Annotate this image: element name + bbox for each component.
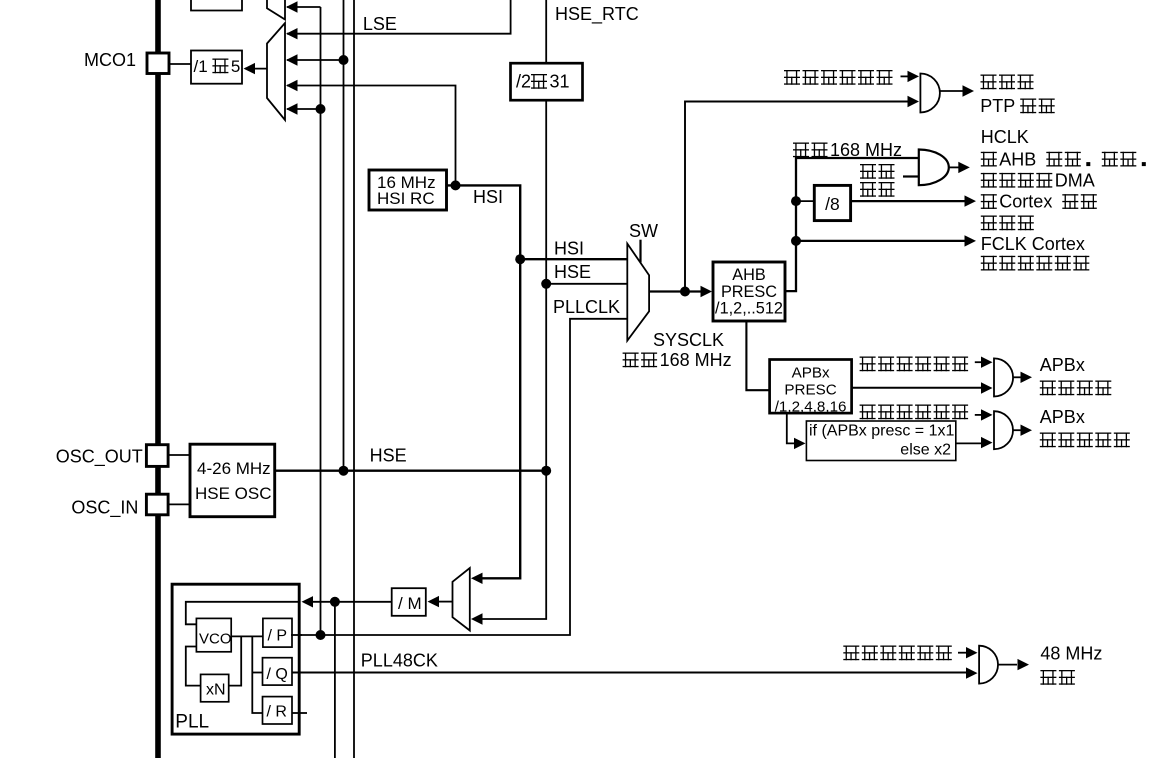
wire HSE_RTC vertical (x=545.5) with elbow into PLL source mux [482, 0, 546, 619]
mux MCO1 source select [267, 23, 285, 120]
divider box /M [392, 588, 426, 616]
svg-text:SW: SW [629, 221, 658, 241]
svg-text:HSE OSC: HSE OSC [195, 484, 272, 503]
arrowhead PLL48CK into 48MHz gate [966, 667, 978, 678]
arrowhead HSE into PLL source mux [471, 613, 483, 624]
svg-text:OSC_IN: OSC_IN [71, 498, 138, 519]
wire PLLCLK elbow: /P output right then up into SW mux [292, 319, 627, 635]
svg-text:48 MHz: 48 MHz [1040, 644, 1102, 664]
svg-text:AHB: AHB [732, 266, 765, 284]
wire clock-enable stub into HCLK gate [903, 175, 919, 177]
label to Cortex system [981, 194, 997, 209]
svg-text:PLL: PLL [175, 712, 209, 733]
pin MCO1 (port square on chip boundary) [147, 53, 169, 74]
wire APBx PRESC output to gate [852, 387, 981, 389]
junction dot PLLCLK/MCO1 [316, 104, 326, 114]
divider box /P [263, 618, 292, 647]
wire MCO2 mux input from PLLCLK net [287, 6, 321, 8]
label max 168 MHz (HCLK) [793, 143, 809, 158]
mux SW system clock select [627, 244, 649, 341]
svg-text:/1,2,4,8,16: /1,2,4,8,16 [775, 399, 847, 416]
wire MCO1 mux input 3 (HSI) elbow [287, 86, 456, 186]
junction dot HSE branch to SW mux [541, 279, 551, 289]
svg-text:/1,2,..512: /1,2,..512 [715, 300, 783, 318]
wire HCLK gate output [949, 166, 959, 168]
svg-text:OSC_OUT: OSC_OUT [56, 447, 143, 468]
divider box /8 [814, 185, 850, 220]
label memory and DMA [981, 173, 997, 188]
svg-text:168 MHz: 168 MHz [660, 350, 732, 370]
block VCO [196, 618, 231, 651]
svg-text:LSE: LSE [363, 14, 397, 34]
svg-text:/ R: / R [267, 704, 287, 721]
wire if-box output to timer gate [956, 442, 981, 444]
svg-text:4-26 MHz: 4-26 MHz [197, 459, 271, 478]
junction dot SYSCLK/ethernet branch [680, 287, 690, 297]
svg-text:HCLK: HCLK [981, 127, 1029, 147]
wire PLL input routing to VCO [186, 602, 299, 625]
label to AHB bus, core [981, 152, 997, 167]
wire LSE from top with elbow into MCO1 mux input 1 [287, 0, 511, 34]
svg-text:MCO1: MCO1 [84, 50, 136, 70]
svg-text:AHB: AHB [999, 149, 1036, 169]
divider box /1 to 5 (MCO1) [191, 51, 242, 84]
wire MCO1 mux input 4 (PLLCLK) [287, 108, 321, 110]
select line SW tick [639, 240, 641, 263]
svg-text:FCLK Cortex: FCLK Cortex [981, 234, 1085, 254]
svg-text:/ P: / P [268, 628, 288, 645]
wire SYSCLK from SW mux to AHB prescaler [649, 290, 704, 292]
svg-text:/8: /8 [825, 194, 840, 214]
wire 48MHz gate output [998, 664, 1017, 666]
wire MCO1 mux input 1 (LSE) arrowhead [286, 28, 298, 39]
junction dot HSE/MCO branch [339, 466, 349, 476]
svg-text:SYSCLK: SYSCLK [653, 330, 724, 350]
block xN [201, 674, 229, 701]
wire enable arrow into timer gate [975, 414, 983, 416]
wire /M output into PLL [311, 601, 392, 603]
junction dot PLLCLK at /P output [316, 630, 326, 640]
svg-text:PRESC: PRESC [784, 382, 836, 399]
oscillator box 4-26 MHz HSE OSC [190, 444, 275, 517]
junction dot HSE/RTC net [541, 466, 551, 476]
arrowhead HSI into PLL source mux [471, 573, 483, 584]
divider box /R [263, 697, 293, 724]
svg-text:VCO: VCO [199, 631, 232, 648]
label peripheral clock enable (APBx timer) [860, 405, 876, 420]
svg-text:5: 5 [231, 57, 240, 76]
wire /Q output PLL48CK long line [292, 672, 968, 674]
junction dot HSI branch to SW mux [515, 254, 525, 264]
mux MCO2 (cut off at top) [267, 0, 285, 20]
prescaler box AHB PRESC [713, 262, 785, 321]
divider box /2 to 31 (RTC) [511, 63, 583, 100]
wire APBx PRESC down into if-box [787, 413, 797, 443]
gate AND 48 MHz clock [979, 646, 998, 684]
wire /8 output to Cortex system timer [851, 200, 965, 202]
label timer (dingshiqi) [981, 216, 997, 231]
wire mux output to divider box with arrowhead [245, 68, 267, 70]
svg-text:PTP: PTP [980, 96, 1015, 116]
svg-text:HSE: HSE [554, 262, 591, 282]
junction dot /8 branch [791, 196, 801, 206]
wire xN output up to VCO output line [229, 636, 242, 685]
junction dot HSE/MCO1 [339, 55, 349, 65]
svg-text:PLLCLK: PLLCLK [553, 297, 620, 317]
wire HSI from RC box right, elbow down to PLL source mux input 1 [447, 185, 521, 578]
wire MCO1 pin to divider box [169, 63, 191, 65]
gate AND APBx timer clock [994, 411, 1013, 449]
arrowhead into AHB PRESC [701, 286, 713, 297]
svg-text:HSE: HSE [370, 446, 407, 466]
label peripheral clock enable (PTP) [784, 70, 800, 85]
label max 168 MHz (SYSCLK) [623, 353, 639, 368]
svg-text:Cortex: Cortex [999, 192, 1052, 212]
junction dot HSI/MCO1 [451, 180, 461, 190]
wire HSE net vertical (x=343.5, MCO branch down to HSE line) [343, 0, 345, 471]
condition box if APBx presc [806, 421, 955, 461]
wire OSC_OUT to HSE OSC [168, 454, 191, 456]
label timer clock [1040, 433, 1056, 448]
divider box /1-5 for MCO2 (cut off at top) [191, 0, 242, 11]
wire OSC_IN to HSE OSC [168, 503, 191, 505]
wire AHB PRESC down to APBx PRESC [746, 321, 769, 390]
wire enable arrow into 48MHz gate [958, 652, 968, 654]
junction dot PLLI2S shared /M branch [330, 597, 340, 607]
wire timer gate output [1013, 429, 1021, 431]
svg-text:else x2: else x2 [900, 442, 951, 459]
oscillator 16 MHz HSI RC box [369, 170, 447, 210]
wire FCLK Cortex [796, 240, 965, 242]
label peripheral clock [1040, 381, 1056, 396]
wire PLLI2S /M vertical down [334, 602, 336, 758]
wire APBx gate output [1013, 376, 1021, 378]
wire PLLI2S vertical net (x=354, full height) [353, 0, 355, 758]
svg-text:if (APBx presc = 1x1: if (APBx presc = 1x1 [809, 423, 954, 440]
divider box /Q [263, 658, 293, 685]
wire chip boundary (thick vertical line) [155, 0, 161, 758]
label peripheral clock enable (APBx) [860, 357, 876, 372]
label free running clock [981, 256, 997, 271]
junction dot FCLK branch [791, 236, 801, 246]
svg-text:HSE_RTC: HSE_RTC [555, 4, 639, 25]
arrowhead into MCO2 mux [286, 1, 298, 12]
prescaler box APBx PRESC [770, 360, 852, 414]
pll box PLL [172, 584, 299, 734]
label enable (shineng) [860, 182, 876, 197]
arrowhead into PTP gate lower input [908, 96, 920, 107]
label ethernet (yitaiwang) [981, 75, 997, 90]
wire enable into PTP gate [901, 75, 911, 77]
svg-text:HSI RC: HSI RC [377, 189, 435, 208]
pin OSC_IN [146, 494, 168, 515]
svg-text:/1: /1 [194, 57, 208, 76]
svg-text:APBx: APBx [1040, 355, 1085, 375]
pin OSC_OUT [146, 445, 168, 467]
wire HSI into SW mux [520, 258, 627, 260]
wire /R output stub [292, 712, 307, 714]
wire MCO1 mux input 2 (HSE) [287, 59, 344, 61]
wire SYSCLK up to ethernet PTP gate [685, 102, 909, 292]
svg-text:/ Q: / Q [267, 666, 288, 683]
svg-text:/2: /2 [516, 72, 531, 92]
svg-text:168 MHz: 168 MHz [830, 140, 902, 160]
mux PLL source select [453, 568, 470, 631]
wire HSE into SW mux [546, 283, 627, 285]
svg-text:DMA: DMA [1055, 170, 1095, 190]
wire /8 stub [796, 200, 814, 202]
wire enable arrow into APBx gate [975, 361, 983, 363]
wire VCO feedback to xN [186, 647, 201, 686]
label clock (48MHz) [1040, 670, 1056, 685]
wire HSE main line [275, 470, 547, 472]
wire VCO output to dividers spine [231, 635, 263, 637]
gate AND HCLK [919, 150, 949, 186]
wire PTP gate output [940, 90, 963, 92]
wire PLLCLK net vertical (x=320.5, MCO2 arrow down to PLL /P output) [320, 7, 322, 635]
label peripheral clock enable (48MHz) [843, 646, 859, 661]
svg-text:HSI: HSI [473, 187, 503, 207]
svg-text:/ M: / M [398, 594, 422, 613]
svg-text:PRESC: PRESC [721, 283, 777, 301]
wire /P output through PLL border [291, 634, 302, 636]
wire divider spine vertical [252, 636, 262, 713]
svg-text:HSI: HSI [554, 239, 584, 259]
wire spine branch to /Q [252, 672, 262, 674]
wire AHB PRESC output right and up (HCLK trunk) [785, 158, 919, 291]
gate AND ethernet PTP [920, 74, 940, 113]
label clock (shizhong) [860, 164, 876, 179]
svg-text:PLL48CK: PLL48CK [361, 651, 438, 671]
svg-text:31: 31 [550, 72, 570, 92]
wire PLL mux output to /M [437, 601, 453, 603]
svg-text:xN: xN [206, 682, 226, 699]
gate AND APBx peripheral clock [994, 358, 1013, 396]
svg-text:APBx: APBx [792, 365, 830, 382]
svg-text:APBx: APBx [1040, 407, 1085, 427]
